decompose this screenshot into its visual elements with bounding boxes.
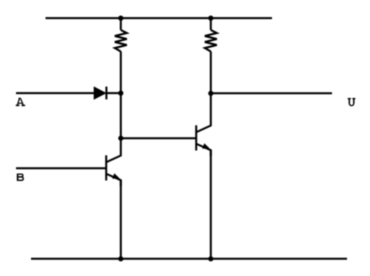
transistor Q1 base bar: [105, 155, 107, 180]
node: Q1 emitter ground junction: [118, 256, 123, 261]
wire: cathode to left column: [106, 92, 120, 94]
wire: R2 to output node: [210, 52, 212, 94]
diode D1 cathode bar: [105, 87, 107, 100]
node: diode junction: [118, 91, 123, 96]
resistor R1: [115, 30, 127, 52]
label U: [348, 99, 356, 106]
transistor Q2 emitter: [197, 144, 211, 156]
wire: input A: [16, 92, 94, 94]
transistor Q1 emitter: [107, 174, 121, 186]
wire: node to Q2 base: [121, 137, 196, 139]
node: output junction: [208, 91, 213, 96]
wire: diode node down to Q1 collector node: [120, 93, 122, 138]
node: R2 top junction: [208, 16, 213, 21]
wire: rail to R2: [210, 18, 212, 30]
wire: Q1 emitter to ground rail: [120, 180, 122, 259]
wire: Q2 emitter to ground rail: [210, 150, 212, 259]
label B: [17, 174, 23, 181]
node: Q2 emitter ground junction: [208, 256, 213, 261]
wire: output U: [211, 92, 332, 94]
resistor R2: [205, 30, 217, 52]
transistor Q1 collector: [107, 138, 121, 162]
transistor Q1 emitter arrow: [112, 173, 119, 179]
transistor Q2 base bar: [195, 125, 197, 150]
wire: R1 to node A-cathode: [120, 52, 122, 94]
node: Q1 collector / Q2 base junction: [118, 136, 123, 141]
label A: [16, 98, 25, 105]
wire: input B: [16, 167, 106, 169]
diode D1 anode triangle: [94, 86, 107, 99]
node: R1 top junction: [118, 16, 123, 21]
ground rail (bottom): [31, 258, 347, 260]
transistor Q2 collector: [197, 93, 211, 132]
wire: rail to R1: [120, 18, 122, 30]
power rail VCC (top): [46, 17, 273, 19]
transistor Q2 emitter arrow: [202, 143, 209, 149]
